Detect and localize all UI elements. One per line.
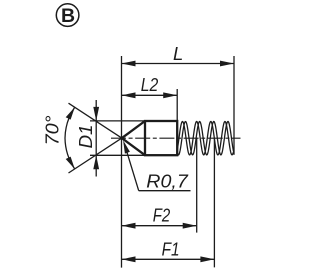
R0,7 underline — [139, 190, 191, 192]
dimension L2 arrows — [122, 92, 178, 98]
svg-text:L: L — [173, 43, 183, 64]
cone construction line lower (70 deg) — [69, 138, 122, 173]
dimension L2 line — [122, 94, 178, 96]
svg-text:F1: F1 — [162, 239, 180, 260]
svg-text:F2: F2 — [153, 204, 171, 225]
70 deg arc arrow bottom — [66, 157, 75, 170]
dimension L arrows — [122, 61, 235, 67]
cone construction line upper (70 deg) — [69, 103, 122, 138]
svg-text:70°: 70° — [42, 115, 63, 145]
wire: right extension line for L (spring end) — [233, 56, 235, 155]
dimension F2 line — [122, 225, 197, 227]
dimension L line — [122, 63, 235, 65]
cone edge lower (thick) — [122, 138, 145, 155]
70 deg arc arrow top — [66, 107, 75, 120]
R0,7 leader line — [124, 144, 138, 191]
dimension D1 arrows — [93, 107, 99, 169]
svg-text:R0,7: R0,7 — [146, 171, 188, 192]
wire: extension line for F1 — [213, 138, 215, 267]
svg-text:L2: L2 — [141, 74, 159, 95]
70 deg dimension arc — [65, 108, 75, 169]
D1 extension line top — [90, 120, 145, 122]
svg-text:B: B — [61, 5, 75, 27]
dimension D1 line — [95, 100, 97, 177]
dimension F1 line — [122, 258, 215, 260]
dimension F1 arrows — [122, 256, 215, 262]
R0,7 leader arrow — [123, 140, 130, 153]
D1 extension line bottom — [90, 154, 145, 156]
svg-text:D1: D1 — [75, 125, 96, 149]
spring coil back edge — [177, 122, 235, 155]
wire: extension line for F2 — [196, 138, 198, 232]
wire: extension line for L2 (body right edge) — [176, 89, 178, 121]
cone edge upper (thick) — [122, 121, 145, 138]
wire: left main extension line (pin tip datum) — [121, 56, 123, 268]
centerline (dash-dot axis) — [111, 137, 241, 139]
spring coil front edge — [177, 122, 234, 155]
plunger body outline — [145, 121, 177, 155]
view label circle B — [56, 4, 79, 27]
dimension F2 arrows — [122, 223, 197, 229]
